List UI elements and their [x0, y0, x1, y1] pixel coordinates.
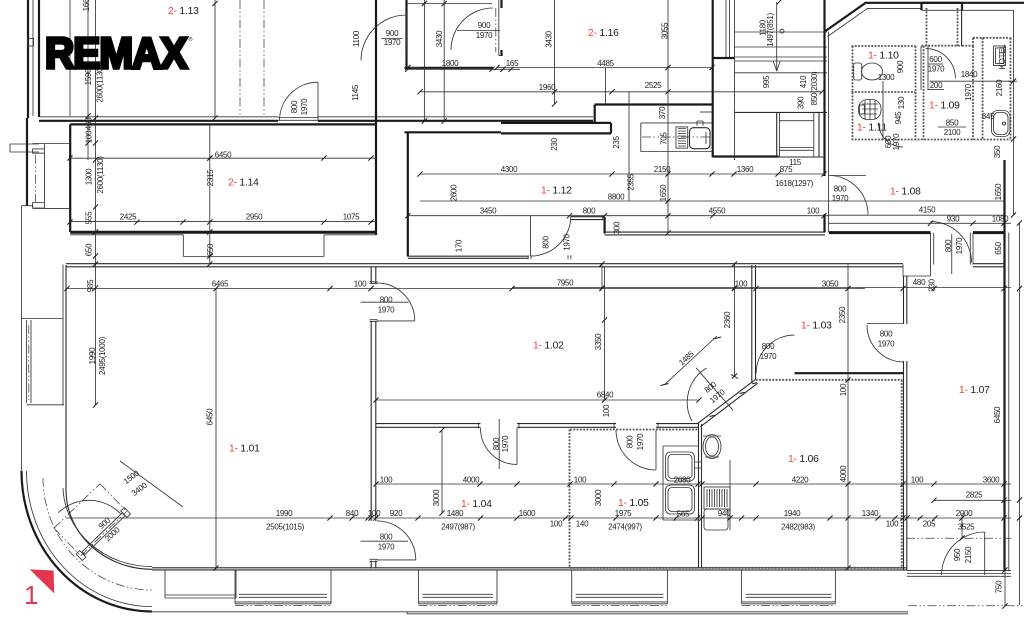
svg-text:6465: 6465 — [212, 280, 229, 289]
svg-text:1145: 1145 — [351, 84, 360, 101]
svg-text:1- 1.09: 1- 1.09 — [929, 101, 960, 112]
svg-text:1- 1.06: 1- 1.06 — [788, 454, 819, 465]
svg-text:350: 350 — [993, 145, 1002, 158]
svg-text:230: 230 — [550, 137, 559, 150]
svg-text:3050: 3050 — [822, 280, 839, 289]
svg-text:4550: 4550 — [709, 207, 726, 216]
svg-text:705: 705 — [660, 132, 669, 145]
svg-text:1300: 1300 — [878, 73, 895, 82]
svg-text:100: 100 — [354, 280, 367, 289]
svg-text:650: 650 — [85, 243, 94, 256]
svg-text:4000: 4000 — [463, 476, 480, 485]
svg-text:4485: 4485 — [597, 59, 614, 68]
svg-text:1970: 1970 — [964, 83, 973, 100]
svg-text:6840: 6840 — [597, 391, 614, 400]
svg-text:1- 1.04: 1- 1.04 — [461, 499, 492, 510]
svg-text:985: 985 — [86, 279, 95, 292]
svg-text:2600(1130): 2600(1130) — [96, 156, 105, 194]
svg-text:3430: 3430 — [435, 30, 444, 47]
svg-text:800: 800 — [944, 239, 953, 252]
svg-text:4300: 4300 — [501, 165, 518, 174]
svg-text:390: 390 — [797, 96, 806, 109]
svg-text:6450: 6450 — [206, 408, 215, 425]
svg-text:100: 100 — [602, 404, 611, 417]
svg-text:REMAX: REMAX — [45, 28, 187, 77]
svg-text:100: 100 — [380, 476, 393, 485]
svg-text:3350: 3350 — [594, 333, 603, 350]
svg-text:2- 1.13: 2- 1.13 — [168, 6, 199, 17]
svg-text:4150: 4150 — [919, 206, 936, 215]
svg-text:2950: 2950 — [246, 213, 263, 222]
svg-text:100: 100 — [574, 476, 587, 485]
svg-text:2160: 2160 — [995, 79, 1004, 96]
svg-text:800: 800 — [626, 435, 635, 448]
svg-text:2825: 2825 — [966, 491, 983, 500]
svg-text:1970: 1970 — [501, 435, 510, 452]
svg-text:920: 920 — [390, 509, 403, 518]
svg-text:1650: 1650 — [659, 184, 668, 201]
svg-text:370: 370 — [658, 106, 667, 119]
svg-text:900: 900 — [386, 29, 399, 38]
svg-text:1960: 1960 — [539, 83, 556, 92]
svg-text:850(2030): 850(2030) — [810, 71, 819, 105]
svg-text:100: 100 — [735, 280, 748, 289]
svg-text:2525: 2525 — [645, 81, 662, 90]
svg-text:1650: 1650 — [994, 183, 1003, 200]
svg-text:1970: 1970 — [760, 352, 777, 361]
svg-text:3000: 3000 — [594, 489, 603, 506]
svg-text:2680: 2680 — [674, 476, 691, 485]
svg-text:800: 800 — [380, 296, 393, 305]
svg-text:1600: 1600 — [519, 509, 536, 518]
svg-text:945: 945 — [894, 111, 903, 124]
svg-text:300: 300 — [613, 221, 622, 234]
svg-text:2360: 2360 — [723, 311, 732, 328]
svg-text:1970: 1970 — [563, 233, 572, 250]
svg-text:2495(1000): 2495(1000) — [98, 336, 107, 375]
svg-text:1075: 1075 — [343, 213, 360, 222]
svg-text:800: 800 — [583, 207, 596, 216]
svg-text:1180: 1180 — [759, 19, 768, 36]
svg-text:460: 460 — [85, 117, 94, 130]
svg-text:800: 800 — [834, 185, 847, 194]
svg-text:130: 130 — [897, 96, 906, 109]
svg-text:1: 1 — [24, 580, 38, 610]
svg-text:100: 100 — [886, 520, 899, 529]
svg-text:7950: 7950 — [557, 279, 574, 288]
svg-text:1480: 1480 — [447, 509, 464, 518]
svg-text:650: 650 — [206, 243, 215, 256]
svg-text:480: 480 — [913, 278, 926, 287]
svg-text:1970: 1970 — [892, 133, 901, 150]
svg-text:2150: 2150 — [964, 546, 973, 563]
svg-text:750: 750 — [995, 580, 1004, 593]
svg-text:®: ® — [189, 36, 193, 43]
svg-text:1970: 1970 — [378, 543, 395, 552]
svg-text:1- 1.01: 1- 1.01 — [229, 444, 260, 455]
svg-text:900: 900 — [896, 60, 905, 73]
svg-text:940: 940 — [718, 509, 731, 518]
svg-text:2000: 2000 — [956, 509, 973, 518]
svg-text:205: 205 — [923, 520, 936, 529]
svg-text:1300: 1300 — [85, 168, 94, 185]
svg-text:1- 1.02: 1- 1.02 — [533, 341, 564, 352]
svg-text:4220: 4220 — [792, 476, 809, 485]
svg-text:850: 850 — [946, 119, 959, 128]
svg-text:1- 1.08: 1- 1.08 — [890, 187, 921, 198]
svg-text:2355: 2355 — [626, 173, 635, 190]
svg-text:230: 230 — [928, 278, 937, 291]
svg-text:2474(997): 2474(997) — [608, 523, 642, 532]
svg-text:1970: 1970 — [636, 433, 645, 450]
svg-text:100: 100 — [911, 476, 924, 485]
svg-text:1618(1297): 1618(1297) — [775, 179, 814, 188]
svg-text:1340: 1340 — [862, 509, 879, 518]
svg-text:3055: 3055 — [661, 22, 670, 39]
svg-text:1100: 1100 — [352, 30, 361, 47]
svg-text:3600: 3600 — [983, 476, 1000, 485]
svg-text:650: 650 — [994, 241, 1003, 254]
svg-text:2100: 2100 — [944, 128, 961, 137]
svg-text:2600: 2600 — [450, 184, 459, 201]
svg-text:1970: 1970 — [832, 194, 849, 203]
svg-text:1665: 1665 — [82, 0, 91, 11]
svg-text:840: 840 — [346, 509, 359, 518]
svg-text:3430: 3430 — [545, 30, 554, 47]
svg-text:6450: 6450 — [993, 406, 1002, 423]
svg-text:2505(1015): 2505(1015) — [266, 523, 305, 532]
svg-text:800: 800 — [762, 342, 775, 351]
svg-text:900: 900 — [478, 21, 491, 30]
svg-text:800: 800 — [542, 235, 551, 248]
svg-text:800: 800 — [380, 533, 393, 542]
svg-text:800: 800 — [880, 330, 893, 339]
svg-text:1080: 1080 — [992, 215, 1009, 224]
svg-text:1840: 1840 — [961, 70, 978, 79]
svg-text:2497(987): 2497(987) — [441, 523, 475, 532]
svg-text:2150: 2150 — [654, 165, 671, 174]
svg-text:3450: 3450 — [480, 207, 497, 216]
svg-text:2350: 2350 — [838, 306, 847, 323]
svg-text:100: 100 — [85, 130, 94, 143]
svg-text:950: 950 — [953, 548, 962, 561]
svg-text:1- 1.12: 1- 1.12 — [541, 186, 572, 197]
svg-text:100: 100 — [807, 207, 820, 216]
svg-text:1970: 1970 — [878, 340, 895, 349]
svg-text:1970: 1970 — [300, 98, 309, 115]
svg-text:800: 800 — [290, 100, 299, 113]
svg-text:1- 1.07: 1- 1.07 — [959, 385, 990, 396]
svg-text:3000: 3000 — [432, 489, 441, 506]
svg-text:1970: 1970 — [928, 65, 945, 74]
svg-text:1975: 1975 — [615, 509, 632, 518]
svg-text:800: 800 — [492, 437, 501, 450]
svg-text:565: 565 — [677, 510, 690, 519]
svg-text:1990: 1990 — [88, 347, 97, 364]
svg-text:410: 410 — [799, 75, 808, 88]
svg-text:845: 845 — [982, 112, 995, 121]
svg-text:2425: 2425 — [120, 213, 137, 222]
svg-text:1970: 1970 — [476, 31, 493, 40]
svg-text:1- 1.03: 1- 1.03 — [801, 321, 832, 332]
svg-text:600: 600 — [929, 55, 942, 64]
svg-text:1970: 1970 — [955, 237, 964, 254]
svg-text:1800: 1800 — [442, 59, 459, 68]
svg-text:170: 170 — [455, 239, 464, 252]
svg-text:2482(983): 2482(983) — [781, 523, 815, 532]
svg-text:875: 875 — [780, 165, 793, 174]
svg-text:140: 140 — [576, 520, 589, 529]
svg-text:1360: 1360 — [737, 165, 754, 174]
svg-text:200: 200 — [930, 81, 943, 90]
svg-text:165: 165 — [506, 59, 519, 68]
svg-text:995: 995 — [762, 75, 771, 88]
svg-text:1940: 1940 — [784, 509, 801, 518]
svg-text:6450: 6450 — [215, 151, 232, 160]
svg-text:555: 555 — [85, 211, 94, 224]
svg-text:100: 100 — [839, 383, 848, 396]
svg-text:1970: 1970 — [378, 306, 395, 315]
svg-text:1970: 1970 — [384, 38, 401, 47]
svg-text:1990: 1990 — [276, 509, 293, 518]
svg-text:235: 235 — [612, 135, 621, 148]
svg-text:2- 1.16: 2- 1.16 — [588, 28, 619, 39]
svg-text:100: 100 — [368, 509, 381, 518]
svg-text:8800: 8800 — [608, 193, 625, 202]
svg-text:1- 1.10: 1- 1.10 — [868, 51, 899, 62]
svg-text:100: 100 — [550, 520, 563, 529]
svg-text:4000: 4000 — [839, 465, 848, 482]
svg-text:2- 1.14: 2- 1.14 — [228, 178, 259, 189]
svg-text:KOTEL: KOTEL — [998, 44, 1007, 70]
svg-text:1- 1.11: 1- 1.11 — [857, 123, 887, 134]
svg-text:930: 930 — [947, 215, 960, 224]
svg-text:3525: 3525 — [958, 523, 975, 532]
svg-text:2315: 2315 — [206, 169, 215, 186]
svg-text:1- 1.05: 1- 1.05 — [618, 498, 649, 509]
